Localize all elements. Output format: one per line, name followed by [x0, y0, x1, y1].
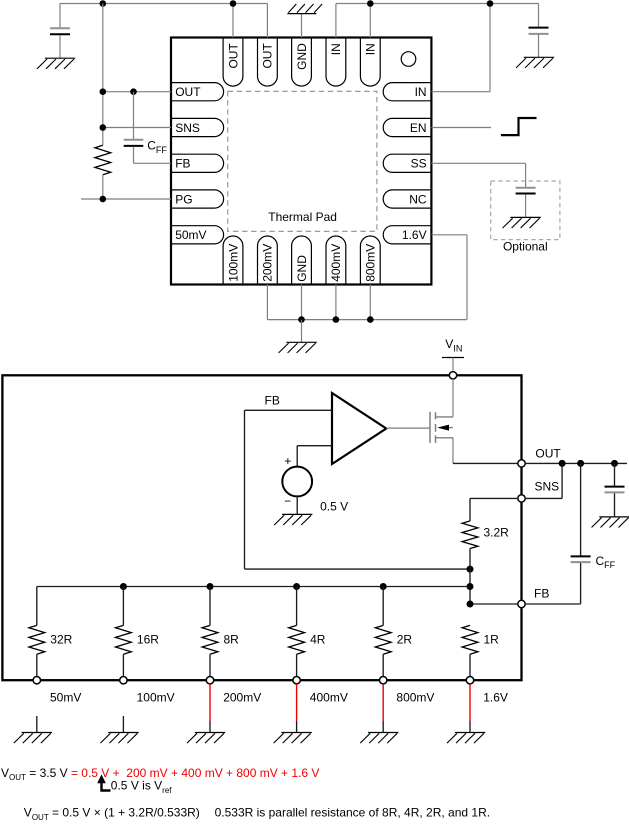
capacitor C_IN [529, 28, 549, 34]
wire IN net top rail [336, 3, 539, 5]
svg-text:200mV: 200mV [223, 690, 261, 704]
svg-text:800mV: 800mV [364, 244, 378, 282]
junction bus/8R [207, 583, 214, 590]
ground (bottom strap) [279, 342, 317, 353]
terminal 400mV (on box) [293, 677, 300, 684]
annotation arrow (0.5 V is Vref) [97, 774, 110, 790]
capacitor C_OUT stub top [59, 4, 61, 28]
ground (800mV) [360, 733, 398, 744]
block diagram box [2, 375, 521, 680]
svg-text:FB: FB [265, 393, 280, 407]
svg-text:+: + [284, 454, 291, 468]
U1 top pin OUT [258, 39, 278, 87]
minus sign (V source) [284, 494, 291, 508]
U1 left pin OUT [172, 83, 224, 101]
U1 right pin EN [383, 118, 430, 136]
U1 right pin SS [383, 154, 430, 172]
wire IN pin lead (right) [431, 91, 490, 93]
wire resistor bank bus [37, 586, 470, 588]
svg-text:OUT: OUT [226, 43, 240, 69]
label 100mV (terminal) [137, 690, 175, 704]
wire SNS external [525, 497, 562, 499]
wire 16R top stub [122, 587, 124, 626]
svg-text:EN: EN [410, 121, 427, 135]
wire OUT pin1 drop [232, 4, 234, 38]
wire 800mV strap (red) [382, 684, 384, 721]
wire IN pin1 drop [335, 4, 337, 38]
wire 200mV strap (red) [209, 684, 211, 721]
wire OUT pin2 drop [266, 4, 268, 38]
svg-text:16R: 16R [137, 632, 159, 646]
wire 200mV pin stub [266, 285, 268, 320]
svg-text:4R: 4R [310, 632, 326, 646]
U1 thermal pad (dashed) [228, 91, 377, 231]
thermal pad label [268, 210, 337, 224]
wire ground stub 50mV [36, 716, 38, 732]
V_IN terminal bar [442, 357, 464, 359]
wire 8R top stub [209, 587, 211, 626]
svg-text:1.6V: 1.6V [402, 228, 427, 242]
capacitor C_IN stub bottom [538, 35, 540, 58]
wire EN pin lead [431, 127, 491, 129]
resistor 16R [116, 625, 132, 654]
junction OUT/output cap [611, 460, 618, 467]
U1 top pin IN [326, 39, 346, 87]
wire FB feedback horizontal [245, 568, 471, 570]
wire 800mV strap lower [382, 721, 384, 732]
label SNS (terminal) [535, 479, 560, 493]
wire C_FF branch upper [580, 463, 582, 556]
ground (200mV) [187, 733, 225, 744]
label 0.5 V [320, 500, 348, 514]
svg-text:400mV: 400mV [310, 690, 348, 704]
svg-text:1.6V: 1.6V [483, 690, 508, 704]
wire SS pin lead [431, 162, 525, 164]
junction top wire / IN pin2 [367, 0, 374, 7]
wire 200mV strap lower [209, 721, 211, 732]
terminal SNS (on box) [518, 495, 525, 502]
svg-text:0.5 V: 0.5 V [320, 500, 348, 514]
label C_FF [147, 139, 167, 155]
transistor Q1 drain tap [436, 416, 454, 418]
IC U1 package outline [171, 38, 431, 285]
svg-text:−: − [284, 494, 291, 508]
capacitor C_SS (optional) [516, 188, 536, 194]
wire 800mV pin stub [369, 285, 371, 320]
label 1.6V (terminal) [483, 690, 508, 704]
wire IN right drop [489, 4, 491, 92]
wire non-inverting input [297, 445, 332, 447]
terminal 800mV (on box) [380, 677, 387, 684]
label FB (op-amp input) [265, 393, 280, 407]
terminal V_IN (on box) [449, 372, 456, 379]
capacitor C_FF stub top [133, 92, 135, 139]
svg-text:Thermal Pad: Thermal Pad [268, 210, 337, 224]
transistor Q1 body line [446, 427, 453, 429]
wire OUT external [525, 462, 627, 464]
wire 400mV pin stub [335, 285, 337, 320]
svg-text:IN: IN [329, 43, 343, 55]
terminal OUT (on box) [518, 460, 525, 467]
wire GND top pin stub [301, 14, 303, 38]
svg-text:100mV: 100mV [226, 244, 240, 282]
label 8R [224, 632, 240, 646]
wire 1.6V pin lead [431, 234, 467, 236]
voltage source V1 0.5V [282, 467, 312, 497]
U1 bottom pin 200mV [258, 236, 278, 283]
svg-text:0.533R is parallel resistance: 0.533R is parallel resistance of 8R, 4R,… [215, 806, 490, 820]
capacitor C_OUT [50, 28, 70, 34]
junction bus/16R [120, 583, 127, 590]
wire GND pin stub [301, 285, 303, 320]
label 1R [484, 632, 500, 646]
wire bottom strap bus [267, 319, 467, 321]
svg-text:400mV: 400mV [329, 244, 343, 282]
wire source down [452, 438, 454, 464]
transistor Q1 gate bar [429, 412, 431, 443]
label 32R [50, 632, 72, 646]
wire SNS sense riser [561, 463, 563, 498]
terminal 200mV (on box) [206, 677, 213, 684]
resistor 32R [29, 625, 45, 654]
ground (C_IN) [516, 57, 554, 68]
transistor Q1 channel bar (3 segments) [435, 412, 437, 443]
wire 2R top stub [382, 587, 384, 626]
wire 32R top stub [36, 587, 38, 626]
label 200mV (terminal) [223, 690, 261, 704]
junction rail/SNS lead [100, 124, 107, 131]
svg-text:PG: PG [175, 192, 192, 206]
wire 4R top stub [296, 587, 298, 626]
U1 left pin 50mV [172, 226, 224, 244]
wire C_FF to FB pin [134, 162, 172, 164]
wire OUT net top rail [60, 3, 267, 5]
U1 bottom pin 400mV [326, 236, 346, 284]
wire OUT pin lead [103, 91, 171, 93]
label FB (terminal) [534, 587, 549, 601]
wire 1.6V strap lower [469, 721, 471, 732]
junction strap/400mV [333, 316, 340, 323]
formula line 1 [1, 766, 319, 782]
ground (V1) [274, 514, 312, 525]
wire 8R bottom stub [209, 654, 211, 680]
label Optional [503, 239, 548, 253]
wire C_FF branch lower [580, 563, 582, 604]
svg-text:OUT: OUT [175, 85, 201, 99]
U1 top pin GND [292, 39, 312, 87]
svg-text:SNS: SNS [175, 121, 200, 135]
junction top wire / IN drop [487, 0, 494, 7]
transistor Q1 source tap [436, 437, 454, 439]
formula line 3b [215, 806, 490, 820]
U1 right pin NC [383, 190, 430, 208]
U1 pin-1 indicator circle [401, 52, 416, 67]
wire output cap branch [614, 463, 616, 486]
svg-text:GND: GND [295, 255, 309, 282]
capacitor C_FF (lower diagram) [571, 556, 591, 562]
wire ground stub 100mV [122, 716, 124, 732]
plus sign (V source) [284, 454, 291, 468]
wire V1 to ground [296, 496, 298, 514]
svg-text:100mV: 100mV [137, 690, 175, 704]
wire drain from V_IN [452, 379, 454, 417]
label 800mV (terminal) [396, 690, 434, 704]
wire gate lead [386, 427, 430, 429]
ground (50mV) [14, 733, 52, 744]
wire V_IN stem [452, 358, 454, 371]
wire PG pin lead [81, 198, 171, 200]
svg-text:Optional: Optional [503, 239, 548, 253]
svg-text:SS: SS [411, 157, 427, 171]
label 0.5 V is Vref [111, 779, 172, 795]
wire 2R bottom stub [382, 654, 384, 680]
ground (100mV) [100, 733, 138, 744]
svg-text:FB: FB [534, 587, 549, 601]
ground (400mV) [274, 733, 312, 744]
U1 left pin SNS [172, 118, 224, 136]
wire rail below resistor [102, 175, 104, 199]
svg-text:3.2R: 3.2R [484, 526, 510, 540]
junction rail/OUT lead [100, 88, 107, 95]
svg-text:SNS: SNS [535, 479, 560, 493]
wire strap to ground [301, 320, 303, 342]
capacitor C_FF stub bottom [133, 147, 135, 164]
wire FB internal [470, 603, 518, 605]
label 400mV (terminal) [310, 690, 348, 704]
U1 top pin OUT [223, 39, 243, 87]
svg-text:800mV: 800mV [396, 690, 434, 704]
U1 bottom pin GND [292, 236, 312, 283]
U1 left pin FB [172, 154, 224, 172]
U1 left pin PG [172, 190, 224, 208]
label C_FF (lower diagram) [596, 554, 616, 570]
junction rail/PG lead [100, 196, 107, 203]
capacitor C_OUT stub bottom [59, 35, 61, 58]
svg-text:OUT: OUT [535, 446, 561, 460]
wire SNS pin lead [103, 127, 171, 129]
capacitor C_IN stub top [538, 4, 540, 28]
wire inverting input [245, 409, 333, 411]
svg-text:IN: IN [415, 85, 427, 99]
wire 1.6V strap (red) [469, 684, 471, 721]
label V_IN [445, 337, 462, 353]
wire 32R bottom stub [36, 654, 38, 680]
svg-text:2R: 2R [397, 632, 413, 646]
junction bus/4R [293, 583, 300, 590]
resistor 8R [202, 625, 218, 654]
label 16R [137, 632, 159, 646]
U1 top pin IN [360, 39, 380, 87]
terminal FB (on box) [518, 600, 525, 607]
op-amp U2 (error amplifier) [332, 393, 386, 464]
wire 16R bottom stub [122, 654, 124, 680]
wire 400mV strap (red) [296, 684, 298, 721]
U1 bottom pin 800mV [360, 236, 380, 284]
label 50mV (terminal) [50, 690, 81, 704]
wire output cap stub [614, 493, 616, 516]
wire left rail upper [102, 4, 104, 146]
U1 right pin 1.6V [383, 226, 430, 244]
junction strap/800mV [367, 316, 374, 323]
wire SNS to 3.2R [469, 498, 471, 521]
wire 400mV strap lower [296, 721, 298, 732]
terminal 1.6V (on box) [466, 677, 473, 684]
wire FB feedback vertical [244, 410, 246, 569]
svg-text:32R: 32R [50, 632, 72, 646]
resistor 4R [289, 625, 305, 654]
junction top wire / left rail [100, 0, 107, 7]
ground (C_OUT) [37, 58, 75, 69]
ground (C_SS) [503, 217, 541, 228]
svg-text:50mV: 50mV [50, 690, 81, 704]
capacitor C_O (output) [605, 487, 625, 493]
junction 1R column / bus [467, 583, 474, 590]
capacitor C_SS stub [525, 195, 527, 217]
junction strap/GND [298, 316, 305, 323]
junction top wire / OUT pin1 [230, 0, 237, 7]
junction FB/1R column [467, 601, 474, 608]
resistor 1R [462, 625, 478, 654]
wire 3.2R to FB node [469, 549, 471, 605]
optional dashed box [491, 181, 560, 240]
svg-text:OUT: OUT [261, 43, 275, 69]
wire SNS internal [470, 497, 518, 499]
svg-text:50mV: 50mV [175, 228, 206, 242]
resistor 3.2R [462, 521, 478, 549]
wire source to OUT [453, 462, 518, 464]
svg-text:FB: FB [175, 157, 190, 171]
svg-text:IN: IN [364, 43, 378, 55]
junction OUT lead / C_FF [130, 88, 137, 95]
capacitor C_FF (external) [124, 140, 144, 146]
ground (1.6V) [447, 733, 485, 744]
label 2R [397, 632, 413, 646]
U1 right pin IN [383, 83, 430, 101]
wire 1.6V drop [466, 235, 468, 320]
formula line 3a [24, 806, 200, 822]
resistor 2R [375, 625, 391, 654]
svg-text:200mV: 200mV [261, 244, 275, 282]
wire SS drop [525, 163, 527, 187]
EN step waveform symbol [501, 118, 537, 135]
label OUT (terminal) [535, 446, 561, 460]
svg-text:8R: 8R [224, 632, 240, 646]
transistor Q1 body arrow [437, 425, 449, 431]
wire FB external [525, 603, 581, 605]
U1 bottom pin 100mV [223, 236, 243, 284]
junction bus/2R [380, 583, 387, 590]
terminal 50mV (on box) [33, 677, 40, 684]
svg-text:1R: 1R [484, 632, 500, 646]
junction OUT/SNS sense [559, 460, 566, 467]
svg-text:NC: NC [409, 192, 427, 206]
junction feedback/1R column [467, 566, 474, 573]
wire 4R bottom stub [296, 654, 298, 680]
wire non-inverting drop [296, 446, 298, 467]
ground (output cap) [592, 517, 629, 528]
svg-text:GND: GND [295, 43, 309, 70]
ground (top GND pin, inverted) [287, 4, 322, 14]
wire IN pin2 drop [369, 4, 371, 38]
terminal 100mV (on box) [120, 677, 127, 684]
resistor R_PG [95, 145, 111, 175]
svg-text:VOUT = 0.5 V × (1 + 3.2R/0.533: VOUT = 0.5 V × (1 + 3.2R/0.533R) [24, 806, 200, 822]
junction OUT/C_FF branch [577, 460, 584, 467]
wire 1R bottom stub [469, 654, 471, 680]
label 4R [310, 632, 326, 646]
label 3.2R [484, 526, 510, 540]
